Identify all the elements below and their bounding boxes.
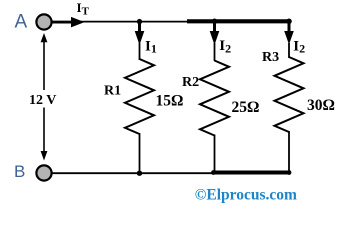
junction dot: R2 top node <box>212 19 218 25</box>
svg-text:15Ω: 15Ω <box>156 92 184 109</box>
wire: R1 top lead <box>139 43 141 60</box>
node A terminal <box>36 14 51 29</box>
resistor R2 zigzag <box>200 61 229 136</box>
current arrow I2 into R2 <box>210 22 220 45</box>
svg-text:I1: I1 <box>145 38 157 55</box>
wire: R3 bottom lead <box>288 131 290 175</box>
current arrow I1 into R1 <box>135 22 145 45</box>
wire: top rail thick segment from x=187 to R3 top <box>187 19 290 23</box>
current arrow I2 into R3 <box>284 22 294 45</box>
wire: bottom rail thick segment <box>213 170 291 174</box>
svg-text:R2: R2 <box>182 75 199 90</box>
resistor R1 zigzag <box>125 59 154 134</box>
current arrow IT on top wire <box>53 17 85 28</box>
node B terminal <box>36 165 51 180</box>
svg-text:A: A <box>15 12 28 33</box>
junction dot: R1 top node <box>137 19 142 24</box>
junction dot: R3 top node <box>286 19 292 25</box>
junction dot: R1 bottom node <box>137 171 142 176</box>
svg-text:R3: R3 <box>262 50 279 65</box>
svg-text:©Elprocus.com: ©Elprocus.com <box>195 187 297 204</box>
voltage source up arrow toward A <box>41 33 48 90</box>
wire: top rail thin segment from node A to R2 area <box>51 21 188 23</box>
svg-text:B: B <box>14 162 25 181</box>
resistor R3 zigzag <box>275 57 304 132</box>
svg-text:25Ω: 25Ω <box>232 99 260 116</box>
wire: R2 bottom lead <box>214 135 216 174</box>
svg-text:30Ω: 30Ω <box>307 97 335 114</box>
wire: R1 bottom lead <box>139 133 141 174</box>
wire: bottom rail thin segment <box>51 172 214 174</box>
voltage source down arrow toward B <box>41 108 48 161</box>
junction dot: R3 bottom node <box>287 170 292 175</box>
svg-text:I2: I2 <box>219 38 231 55</box>
wire: R2 top lead <box>214 43 216 61</box>
svg-text:I2: I2 <box>293 39 305 56</box>
junction dot: R2 bottom node <box>211 170 216 175</box>
svg-text:IT: IT <box>77 0 90 18</box>
svg-text:R1: R1 <box>104 84 121 99</box>
svg-text:12 V: 12 V <box>29 93 56 108</box>
wire: R3 top lead <box>288 43 290 58</box>
